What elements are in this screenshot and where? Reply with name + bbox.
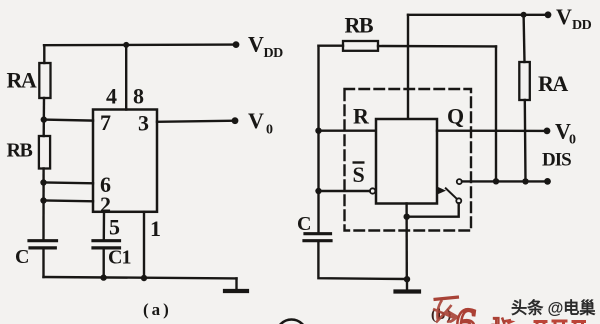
wire: S input	[319, 190, 370, 192]
node: junction RA/top rail	[521, 12, 527, 18]
svg-text:C: C	[297, 213, 311, 235]
node: junction C1/rail	[100, 274, 106, 280]
flip-flop box U2	[376, 119, 437, 204]
svg-text:4: 4	[106, 84, 117, 109]
svg-text:DD: DD	[264, 46, 284, 61]
wire: DIS line	[462, 180, 548, 182]
dashed 555 boundary box (b)	[345, 89, 472, 231]
svg-text:0: 0	[569, 133, 576, 148]
red watermark stroke: top bar of 5	[434, 297, 460, 300]
wire: to pin 6	[44, 181, 94, 184]
node: junction pin1/rail	[141, 275, 147, 281]
node: junction RB-vert/DIS	[493, 178, 499, 184]
node: junction pin6	[40, 179, 46, 185]
wire: R input	[319, 129, 377, 131]
ground (a)	[235, 278, 237, 290]
wire: rail down to IC top (pins 4/8)	[125, 45, 127, 110]
wire: VDD top rail (a)	[44, 43, 236, 46]
svg-text:C: C	[15, 246, 29, 268]
wire: pin 3 output to V0	[157, 121, 235, 122]
switch upper contact	[457, 179, 462, 184]
svg-text:3: 3	[138, 111, 149, 136]
svg-text:R: R	[353, 104, 370, 129]
red watermark stroke L (partial)	[502, 318, 511, 324]
svg-text:V: V	[248, 32, 264, 57]
svg-text:RB: RB	[7, 140, 33, 162]
wire: RA bottom to RB top	[43, 98, 46, 136]
switch drive arrowhead from flip-flop	[438, 187, 447, 195]
op-amp U1: 555 IC box (a)	[93, 110, 157, 212]
svg-text:8: 8	[133, 84, 144, 109]
red watermark knot strokes of 5	[433, 300, 458, 323]
wire: pin 5 down through C1	[103, 212, 106, 240]
red triangle logo fragment	[506, 320, 516, 324]
switch lever	[446, 188, 457, 198]
svg-text:Q: Q	[447, 104, 464, 129]
svg-text:V: V	[556, 4, 572, 29]
svg-text:1: 1	[150, 216, 161, 241]
wire: L from lower switch contact	[407, 203, 459, 216]
wire: to pin 2	[44, 199, 94, 202]
wire: RB right to corner	[378, 45, 496, 48]
svg-text:S: S	[353, 162, 365, 187]
wire: Q output to V0	[437, 129, 547, 132]
svg-text:d: d	[486, 313, 501, 324]
svg-text:C1: C1	[108, 247, 130, 269]
capacitor C (a)	[29, 239, 57, 242]
wire: pin 1 down to rail	[143, 212, 145, 278]
svg-text:头条 @电巢: 头条 @电巢	[511, 299, 596, 318]
node: junction on top rail to pins 4/8	[123, 42, 129, 48]
resistor RB (a)	[39, 136, 50, 169]
capacitor C1 (a)	[93, 239, 120, 242]
wire: rail corner down to RA top	[43, 45, 45, 63]
wire: to pin 7	[44, 120, 93, 121]
wire: C1 bottom to rail	[102, 249, 104, 278]
wire: VDD top rail (b)	[408, 14, 548, 16]
node: VDD terminal (b)	[545, 11, 552, 18]
node: junction RA-vert/DIS	[522, 178, 528, 184]
node: S inversion bubble	[370, 188, 375, 193]
capacitor C (b)	[305, 232, 331, 235]
node: junction pin2	[40, 197, 46, 203]
wire: bottom ground rail (a)	[44, 277, 237, 278]
svg-text:V: V	[248, 108, 264, 133]
node: junction below flip-flop	[404, 214, 410, 220]
svg-text:RB: RB	[345, 13, 374, 38]
svg-text:2: 2	[100, 192, 111, 217]
svg-text:7: 7	[100, 110, 111, 135]
wire: left node to RB left	[319, 45, 344, 47]
node: V0 terminal (a)	[232, 117, 239, 124]
svg-text:0: 0	[266, 123, 273, 138]
node: junction R input	[315, 128, 321, 134]
wire: C bottom to ground rail	[42, 249, 44, 278]
overbar of S label	[353, 161, 365, 163]
red partial character tops (bottom edge)	[534, 321, 587, 324]
svg-text:DIS: DIS	[542, 150, 571, 171]
wire: rail down to RA top	[522, 15, 525, 62]
node: junction RA/pin7	[41, 116, 47, 122]
svg-text:RA: RA	[7, 68, 37, 93]
wire: left vertical rail (b)	[317, 46, 319, 233]
node: junction S input	[315, 188, 321, 194]
node: junction ground (b)	[404, 276, 410, 282]
resistor RA (a)	[39, 63, 50, 98]
circled figure number 2 (partial, bottom centre)	[277, 320, 307, 324]
wire: RB bottom down to capacitor C	[42, 169, 44, 240]
switch lower contact	[456, 198, 461, 203]
node: VDD terminal (a)	[233, 41, 240, 48]
wire: C bottom to ground node	[318, 241, 407, 279]
wire: RB corner down to DIS line	[495, 46, 497, 181]
svg-text:5: 5	[109, 215, 120, 240]
ground (b)	[406, 279, 408, 291]
wire: top rail down to flip-flop top	[407, 15, 409, 119]
wire: RA bottom to DIS line	[524, 100, 527, 181]
svg-text:RA: RA	[538, 71, 568, 96]
wire: flip-flop bottom down to ground node	[405, 204, 408, 280]
node: V0 terminal (b)	[544, 127, 551, 134]
resistor RA (b)	[519, 62, 530, 100]
svg-text:(a): (a)	[143, 300, 172, 319]
resistor RB (b)	[343, 41, 378, 51]
svg-text:DD: DD	[572, 18, 592, 33]
node: DIS terminal	[544, 178, 551, 185]
